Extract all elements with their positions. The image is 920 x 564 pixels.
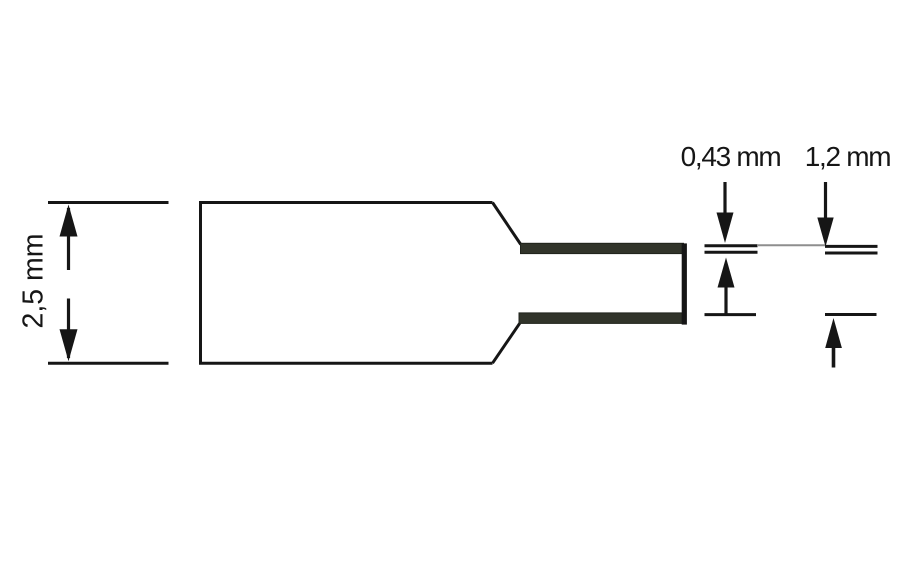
arrow down to inner diameter (1,2 mm) xyxy=(817,182,833,247)
svg-text:2,5 mm: 2,5 mm xyxy=(17,233,49,328)
arrow down to wall thickness (0,43 mm) xyxy=(717,182,734,243)
lower extension line (right) xyxy=(825,313,877,316)
arrow up to inner diameter bottom (1,2 mm) xyxy=(825,318,842,368)
dimension extension line bottom-left xyxy=(48,362,169,365)
dimension arrow down (2,5 mm) xyxy=(60,299,78,362)
lower extension line (left) xyxy=(705,313,757,316)
thin leader line xyxy=(757,244,826,246)
wall thickness extension lines (left pair) xyxy=(705,246,758,252)
inner diameter extension lines (right pair) xyxy=(825,246,878,253)
svg-text:1,2 mm: 1,2 mm xyxy=(805,141,891,172)
shrunk tube bottom wall xyxy=(519,313,684,324)
dimension arrow up (2,5 mm) xyxy=(60,205,78,271)
tube body outline (unshrunk section with tapers) xyxy=(201,203,521,364)
tube end cap xyxy=(682,243,687,324)
dimension extension line top-left xyxy=(48,201,169,204)
svg-text:0,43 mm: 0,43 mm xyxy=(681,141,781,172)
shrunk tube top wall xyxy=(521,243,684,253)
arrow up below wall thickness xyxy=(718,258,735,315)
